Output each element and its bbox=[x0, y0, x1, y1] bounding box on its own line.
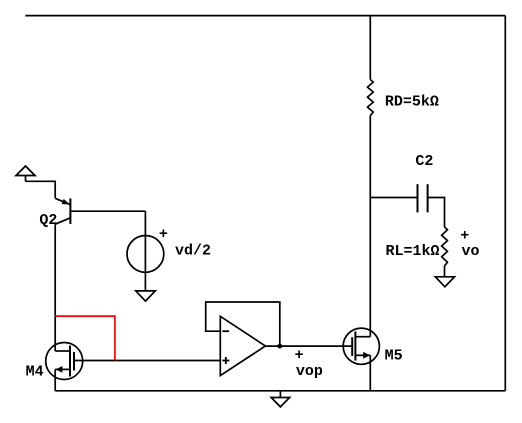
wire M4 source to bottom rail bbox=[54, 369, 56, 390]
svg-text:M5: M5 bbox=[385, 347, 403, 364]
svg-text:vop: vop bbox=[296, 363, 323, 380]
voltage source vd/2 bbox=[127, 226, 211, 272]
transistor Q2 bbox=[39, 198, 145, 229]
wire bottom rail bbox=[55, 390, 505, 392]
wire op-amp plus input to M4 gate bbox=[74, 360, 220, 362]
transistor M4 bbox=[26, 343, 83, 381]
wire port to Q2 emitter bbox=[26, 181, 56, 198]
wire main right vertical RD to M5 drain bbox=[369, 116, 371, 337]
capacitor C2 bbox=[415, 153, 433, 212]
svg-text:vo: vo bbox=[462, 243, 480, 260]
wire op-amp output to M5 gate bbox=[265, 345, 352, 347]
wire RD branch from top rail bbox=[369, 16, 371, 80]
svg-text:C2: C2 bbox=[415, 153, 433, 170]
svg-text:Q2: Q2 bbox=[39, 212, 57, 229]
node vop labels bbox=[295, 347, 323, 380]
ground bottom center bbox=[271, 391, 289, 407]
wire C2 tap bbox=[370, 197, 417, 199]
resistor RL bbox=[386, 227, 448, 266]
wire right edge bbox=[504, 16, 506, 391]
wire Q2 base to vd/2 source bbox=[144, 211, 146, 291]
wire C2 to RL bbox=[428, 198, 445, 228]
svg-text:vd/2: vd/2 bbox=[175, 243, 211, 260]
wire RL to ground bbox=[444, 266, 446, 277]
op-amp U1 bbox=[220, 316, 265, 375]
svg-text:+: + bbox=[159, 226, 168, 243]
svg-text:RD=5kΩ: RD=5kΩ bbox=[385, 94, 439, 111]
svg-text:M4: M4 bbox=[26, 364, 44, 381]
node vop junction dot bbox=[277, 344, 282, 349]
svg-text:+: + bbox=[295, 347, 304, 364]
transistor M5 bbox=[343, 328, 402, 364]
wire red feedback (drain to gate) bbox=[55, 316, 115, 360]
wire M4 drain riser (Q2 collector to M4 drain) bbox=[54, 224, 56, 351]
port input terminal bbox=[16, 166, 35, 181]
svg-text:RL=1kΩ: RL=1kΩ bbox=[386, 243, 440, 260]
ground under RL bbox=[435, 277, 454, 287]
node vo labels bbox=[460, 228, 479, 260]
wire op-amp feedback loop bbox=[206, 302, 280, 346]
wire top rail bbox=[25, 15, 505, 17]
ground under vd/2 bbox=[136, 291, 155, 301]
wire M5 source to bottom rail bbox=[369, 355, 371, 391]
resistor RD bbox=[367, 80, 439, 116]
